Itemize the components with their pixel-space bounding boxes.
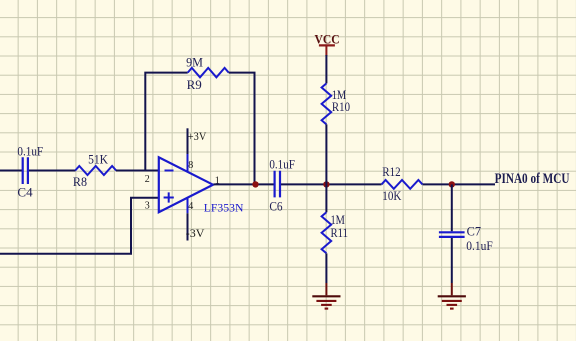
ground symbol GND2 — [438, 296, 466, 308]
ground symbol GND1 — [312, 296, 340, 308]
wire R8 to op-amp pin 2 — [116, 170, 159, 172]
resistor R8 51K — [73, 152, 116, 189]
svg-text:C6: C6 — [269, 199, 283, 214]
wire C6 to R12 — [281, 183, 382, 185]
svg-text:R10: R10 — [332, 99, 350, 114]
power port VCC — [315, 31, 340, 56]
wire R10 to node — [325, 124, 327, 184]
svg-text:R8: R8 — [73, 174, 87, 189]
capacitor C6 — [269, 156, 295, 213]
svg-text:8: 8 — [188, 160, 193, 171]
resistor R9 9M — [186, 55, 229, 92]
capacitor C4 — [17, 143, 43, 199]
op-amp U1 LF353N triangle — [159, 157, 244, 214]
wire R11 to ground — [325, 253, 327, 283]
wire stub dark red above ground 2 — [451, 283, 453, 295]
capacitor C7 — [439, 224, 493, 253]
pin 8 — [187, 154, 189, 172]
svg-text:LF353N: LF353N — [204, 201, 244, 215]
svg-text:51K: 51K — [88, 152, 108, 167]
svg-text:+3V: +3V — [188, 129, 207, 143]
feedback wire down to output node — [229, 73, 255, 185]
svg-text:0.1uF: 0.1uF — [269, 156, 295, 171]
svg-text:R9: R9 — [187, 77, 202, 92]
wire R12 to net label — [423, 183, 495, 185]
wire row A from left edge to C4 — [0, 170, 22, 172]
svg-text:R11: R11 — [331, 225, 349, 240]
svg-text:VCC: VCC — [315, 31, 340, 46]
svg-text:3: 3 — [145, 201, 150, 212]
pin 4 — [187, 198, 189, 213]
svg-text:PINA0 of MCU: PINA0 of MCU — [495, 171, 570, 187]
svg-text:C4: C4 — [17, 184, 33, 199]
wire pin3 bottom run from left edge — [0, 198, 159, 254]
svg-text:4: 4 — [188, 201, 193, 212]
wire node to C7 — [451, 184, 453, 231]
svg-text:-3V: -3V — [186, 226, 205, 240]
wire +3V stub to pin 8 — [187, 128, 189, 154]
svg-text:0.1uF: 0.1uF — [17, 143, 43, 158]
svg-text:0.1uF: 0.1uF — [466, 238, 493, 253]
svg-text:9M: 9M — [186, 55, 203, 70]
wire C4 to R8 — [29, 170, 76, 172]
feedback wire up from pin2 node — [145, 73, 187, 171]
svg-text:10K: 10K — [382, 188, 402, 203]
svg-text:2: 2 — [145, 174, 150, 185]
junction at output node — [252, 181, 258, 187]
wire op-amp output to C6 — [214, 183, 274, 185]
wire VCC to R10 — [325, 55, 327, 83]
wire C7 to ground — [451, 238, 453, 283]
svg-text:R12: R12 — [382, 164, 400, 179]
wire node to R11 — [325, 184, 327, 212]
wire stub dark red above ground — [325, 283, 327, 295]
resistor R11 1M — [322, 212, 348, 253]
resistor R12 10K — [382, 164, 423, 203]
svg-text:C7: C7 — [467, 224, 482, 239]
resistor R10 1M — [322, 83, 350, 124]
junction at C7 node — [449, 181, 455, 187]
junction at R10/R11 node — [323, 181, 329, 187]
wire pin 4 to -3V stub — [187, 213, 189, 240]
